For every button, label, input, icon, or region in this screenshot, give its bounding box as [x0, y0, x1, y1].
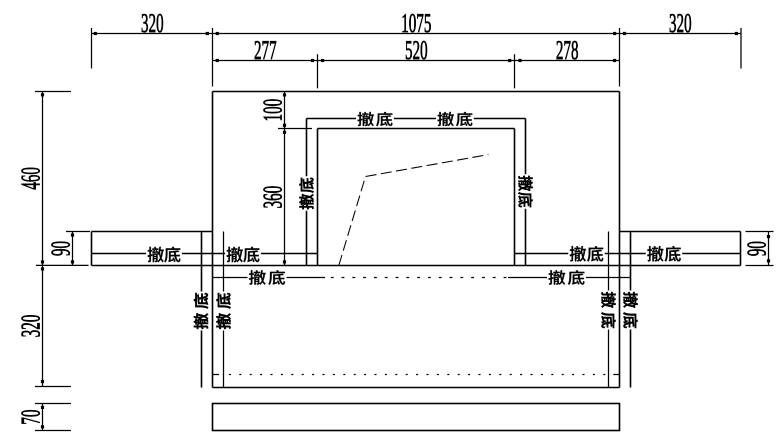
right wing left edge / leader: [630, 232, 632, 388]
label chedi door-top right: [436, 111, 474, 128]
dim line 90 right: [768, 232, 770, 266]
dim text 70: [21, 410, 39, 424]
label chedi right inner ledge: [568, 245, 605, 263]
dotted line lower solid lead right: [613, 374, 619, 376]
ext line y=231.7 left: [66, 231, 90, 233]
dim row1 ext line x=619.7: [619, 28, 621, 87]
right wing right edge: [740, 232, 742, 266]
lower pit bottom edge: [213, 387, 620, 389]
ext line y=265.3 right: [746, 265, 774, 267]
dim row1 ext line left x=91.8: [91, 28, 93, 69]
left ext line y=386.5: [35, 386, 71, 388]
label chedi leader x=630 rotated: [622, 291, 639, 330]
door outer top: [307, 118, 526, 120]
dim row2 line (277/520/278): [213, 60, 620, 62]
label chedi leader row right: [547, 269, 586, 286]
door inner left wall: [317, 129, 319, 266]
label chedi leader x=608 rotated: [600, 291, 617, 330]
dim text 360: [263, 186, 281, 207]
dim row2 ext line x=514.7: [514, 54, 516, 88]
main wall right edge: [619, 92, 621, 388]
left ext line y=403.9: [35, 403, 71, 405]
dim line 100/360: [284, 92, 286, 266]
dotted line lower solid lead left: [213, 374, 220, 376]
dim text 90 right: [747, 242, 765, 256]
dim text 320 top-right: [670, 14, 691, 32]
label chedi leader x=201 rotated: [193, 292, 210, 331]
left dim tick dots: [41, 93, 44, 96]
dim text 90 left: [51, 242, 69, 256]
left ext line y=430.3: [35, 430, 71, 432]
100/360 tick dots: [283, 93, 286, 96]
dim text 320 top-left: [142, 14, 163, 32]
floor line: [92, 265, 741, 267]
label chedi leader row left: [248, 269, 287, 286]
dim text 460: [21, 168, 39, 190]
leader row dash-dot middle: [331, 277, 508, 279]
label chedi door right wall rotated: [517, 174, 534, 209]
leader vertical x=608.5: [608, 232, 610, 388]
left ext line y=91.3: [35, 91, 71, 93]
dim row1 ext line right x=741: [740, 28, 742, 69]
dim row1 tick dots: [94, 32, 97, 35]
door outer left wall: [306, 119, 308, 266]
dim text 277: [255, 41, 277, 59]
left dim line 70: [42, 404, 44, 431]
left wing left edge: [91, 232, 93, 266]
leader row solid left: [213, 277, 326, 279]
left dim line 460/320: [42, 92, 44, 387]
label chedi left wing ledge: [146, 246, 182, 264]
90 right tick dots: [767, 235, 770, 238]
ledge line left: [92, 253, 318, 255]
dotted line lower: [229, 374, 611, 376]
ext line y=232 right: [746, 231, 774, 233]
right wing top edge: [620, 231, 741, 233]
dim text 520: [406, 41, 427, 59]
dim row1 ext line x=212.9: [212, 28, 214, 87]
left wing right edge / leader: [201, 232, 203, 388]
dim row1 line (320/1075/320): [92, 33, 742, 35]
main wall left edge: [212, 92, 214, 388]
leader row solid right: [508, 277, 631, 279]
bottom strip rectangle: [213, 404, 620, 431]
dim text 1075: [403, 14, 431, 32]
dim row2 ext line x=317.8: [317, 54, 319, 88]
door inner right wall: [514, 129, 516, 266]
label chedi right wing ledge: [646, 245, 683, 263]
label chedi door left wall rotated: [298, 176, 315, 211]
label chedi leader x=223 rotated: [215, 292, 232, 331]
dim line 90 left: [72, 232, 74, 266]
label chedi door-top left: [356, 111, 394, 128]
90 left tick dots: [71, 233, 74, 236]
left ext line y=265.4: [36, 264, 89, 266]
dim text 100: [263, 99, 281, 120]
left wing top edge: [92, 231, 213, 233]
door inner top: [318, 128, 515, 130]
excavation profile dashed: [339, 155, 489, 266]
label chedi left inner ledge: [225, 246, 261, 264]
ledge line right: [515, 253, 741, 255]
ext line y=128.8: [278, 128, 312, 130]
dim row2 tick dots: [216, 59, 219, 62]
leader vertical x=223.4: [223, 232, 225, 388]
door outer right wall: [525, 119, 527, 266]
dim text 278: [557, 41, 578, 59]
dim text 320 left-lower: [21, 315, 39, 336]
main wall top edge: [213, 91, 620, 93]
